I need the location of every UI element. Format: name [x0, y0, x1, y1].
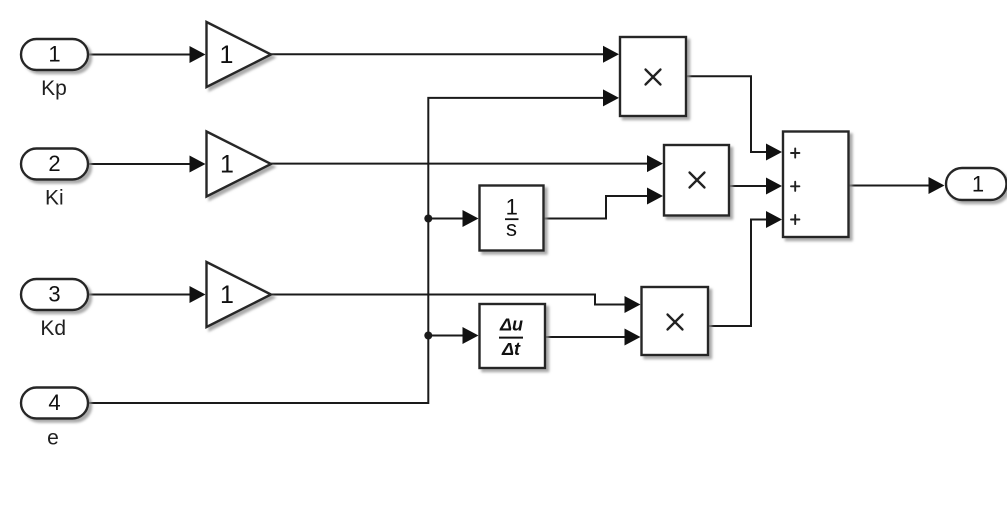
- svg-text:4: 4: [48, 390, 60, 415]
- svg-text:Ki: Ki: [45, 187, 64, 210]
- svg-text:2: 2: [48, 151, 60, 176]
- svg-text:1: 1: [48, 41, 60, 66]
- svg-text:Δt: Δt: [501, 339, 521, 359]
- svg-text:Kp: Kp: [41, 77, 67, 100]
- svg-text:s: s: [506, 216, 517, 241]
- svg-text:Kd: Kd: [40, 317, 66, 340]
- svg-text:1: 1: [220, 281, 234, 309]
- svg-text:e: e: [47, 427, 59, 450]
- svg-text:Δu: Δu: [499, 314, 523, 334]
- svg-text:3: 3: [48, 281, 60, 306]
- svg-text:1: 1: [972, 172, 984, 197]
- svg-text:1: 1: [220, 151, 234, 179]
- svg-text:1: 1: [220, 41, 234, 69]
